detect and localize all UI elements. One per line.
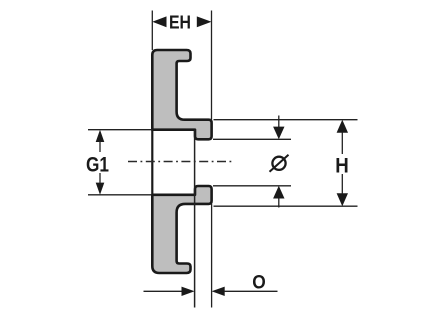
- diameter arrow up: [278, 197, 280, 208]
- wheel cross-section: bottom flange: [152, 186, 211, 273]
- H extension line top: [214, 119, 358, 121]
- O dimension line right part: [212, 287, 225, 296]
- diameter arrow down: [278, 116, 280, 129]
- wheel cross-section: top flange: [152, 50, 211, 139]
- H arrow down: [337, 193, 348, 206]
- diameter extension line bottom: [213, 185, 291, 187]
- G1 arrow down: [96, 183, 105, 195]
- G1 extension line bottom: [88, 194, 152, 196]
- hub bore face vertical line: [194, 130, 196, 308]
- EH arrow right: [197, 16, 212, 27]
- svg-text:O: O: [252, 272, 266, 294]
- svg-text:G1: G1: [86, 154, 109, 177]
- G1 extension line top: [88, 129, 152, 131]
- svg-text:H: H: [335, 154, 349, 177]
- H arrow up: [337, 120, 348, 133]
- centerline: [128, 161, 234, 163]
- hub left face edge: [151, 130, 153, 195]
- O dimension line left part: [144, 290, 184, 292]
- EH arrow left: [152, 16, 166, 27]
- diameter extension line top: [213, 138, 291, 140]
- H extension line bottom: [214, 205, 358, 207]
- O extension line right: [211, 204, 213, 308]
- EH extension line right: [211, 11, 213, 120]
- label diameter symbol: [272, 157, 285, 170]
- svg-text:EH: EH: [169, 11, 191, 32]
- G1 arrow up: [96, 130, 105, 142]
- EH extension line left: [151, 11, 153, 51]
